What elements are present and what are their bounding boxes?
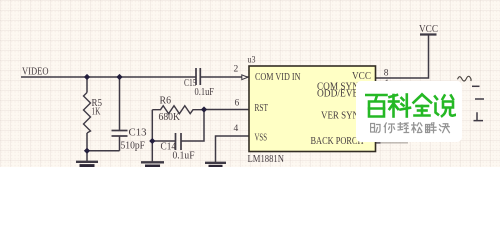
label 510pF <box>121 141 146 152</box>
wire C15 to pin2 <box>200 76 248 78</box>
pin name ODD/EVEN <box>317 88 365 99</box>
svg-text:u3: u3 <box>248 56 256 66</box>
pin name COM VID IN <box>255 72 301 83</box>
junction C14-ground <box>149 138 155 144</box>
label VIDEO <box>22 67 49 78</box>
pin number 6 <box>235 98 240 108</box>
pin name BACK PORCH <box>311 136 364 147</box>
svg-text:LM1881N: LM1881N <box>248 154 285 165</box>
op-amp U3 LM1881N body <box>249 66 376 152</box>
power VCC <box>419 24 438 35</box>
jue <box>440 123 450 132</box>
wire R5 branch vertical <box>86 77 88 93</box>
wire stub dash pin7 <box>475 98 484 100</box>
pin number 2 <box>234 65 239 75</box>
capacitor C14 <box>176 133 182 150</box>
pin number 8 <box>384 68 389 78</box>
svg-text:R6: R6 <box>160 96 172 107</box>
wire pin1 comp sync <box>376 86 456 88</box>
label 1K <box>92 107 102 118</box>
qing <box>398 122 409 132</box>
svg-text:680K: 680K <box>159 112 181 123</box>
wire C13 bottom lead <box>119 136 121 151</box>
junction video-R5 <box>84 74 90 80</box>
wire pin3 vert sync <box>376 112 456 114</box>
label 0.1uF C15 <box>195 87 215 98</box>
svg-text:COM VID IN: COM VID IN <box>255 72 301 83</box>
pin name COM SYNC <box>317 81 365 92</box>
svg-text:1K: 1K <box>92 107 102 118</box>
wire stub corner pin3 <box>474 112 484 120</box>
pin name VSS <box>255 133 268 144</box>
capacitor C13 <box>112 131 128 137</box>
label 0.1uF C14 <box>173 151 195 162</box>
label R6 <box>160 96 172 107</box>
capacitor C15 <box>196 68 200 85</box>
wire stub dash pin1 <box>472 85 480 87</box>
svg-text:VSS: VSS <box>255 133 268 144</box>
resistor R6 <box>152 106 204 114</box>
svg-text:510pF: 510pF <box>121 141 146 152</box>
label C13 <box>129 128 147 139</box>
label C14 <box>161 142 177 153</box>
jie <box>426 122 436 132</box>
pin name VCC <box>352 71 371 82</box>
label C15 <box>184 78 197 89</box>
wire pin6 RST net <box>204 109 249 111</box>
wire pin7 odd-even <box>376 98 456 100</box>
wire main video net horizontal <box>21 76 196 78</box>
wire pin8 to VCC <box>376 35 429 78</box>
watermark baike box <box>356 81 463 142</box>
junction pin6-R6 <box>201 106 207 112</box>
net label squiggle csync <box>458 76 472 81</box>
svg-text:VIDEO: VIDEO <box>22 67 49 78</box>
pin name RST <box>255 103 269 114</box>
pin 2 input arrow <box>242 75 248 80</box>
svg-text:0.1uF: 0.1uF <box>195 87 215 98</box>
ground 2 <box>141 162 164 166</box>
label u3 <box>248 56 256 66</box>
label LM1881N <box>248 154 285 165</box>
svg-text:RST: RST <box>255 103 269 114</box>
zhu <box>371 123 381 132</box>
pin number 4 <box>234 124 239 134</box>
wire C13 branch vertical <box>119 77 121 131</box>
wire C14 left lead <box>152 140 175 142</box>
label 680K <box>159 112 181 123</box>
wire pin4 VSS to ground <box>216 136 249 162</box>
junction video-C13 <box>116 74 122 80</box>
svg-text:0.1uF: 0.1uF <box>173 151 195 162</box>
song <box>412 122 422 132</box>
svg-text:8: 8 <box>384 68 389 78</box>
svg-text:2: 2 <box>234 65 239 75</box>
ground 1 <box>76 162 98 166</box>
svg-text:VCC: VCC <box>419 24 438 35</box>
junction R5-ground rail <box>84 148 90 154</box>
svg-text:4: 4 <box>234 124 239 134</box>
wire R6 left to ground vertical <box>151 110 153 162</box>
svg-text:6: 6 <box>235 98 240 108</box>
wire ground rail R5 to C13 <box>87 150 120 152</box>
wire pin5 back porch <box>376 142 409 144</box>
wire C14 right lead up to pin6 net <box>181 110 204 142</box>
ni <box>384 123 394 133</box>
pin number 1 <box>385 79 390 89</box>
label R5 <box>92 98 103 109</box>
svg-text:C13: C13 <box>129 128 147 139</box>
watermark subtitle 助你轻松解决 <box>370 122 451 134</box>
watermark title 百科全说 <box>365 92 456 118</box>
wire R5 bottom to junction <box>86 133 88 162</box>
ground 3 <box>205 163 226 167</box>
pin name VER SYNC <box>321 110 365 121</box>
resistor R5 <box>84 93 91 134</box>
